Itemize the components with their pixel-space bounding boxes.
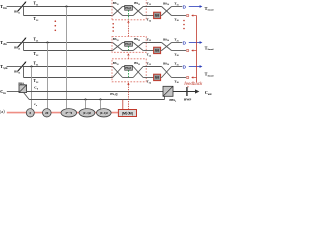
wire after modulator row 2 [161,50,162,52]
wire top row 1 [21,6,113,8]
wire arm bottom row 1 [123,15,134,17]
wire mid bottom row 2 [143,50,154,52]
wire to detector top row 3 [172,66,183,68]
svg-text:D: D [186,48,189,53]
svg-text:Eθ: Eθ [155,49,159,53]
wire C0 [27,91,163,93]
phase shifter PS1 box [125,5,133,10]
svg-text:D: D [186,13,189,18]
coupler BS13 X [133,7,143,16]
switch BS11 slash [18,1,27,11]
wire to detector bottom row 2 [172,50,187,52]
arrow blue row 1 [189,5,203,8]
control line green PS1 [128,10,130,19]
ellipsis dots x55.3 [55,20,57,31]
wire ca bend up [164,96,166,99]
svg-text:2θ: 2θ [45,111,49,115]
dashed box MZI row 3 [112,59,146,82]
wire qubit red line [7,112,119,114]
coupler BS33 X [133,67,143,78]
svg-text:Eθ: Eθ [155,14,159,18]
arrow C out [173,89,199,93]
svg-text:(2ⁿ-1)θ: (2ⁿ-1)θ [83,111,92,115]
wire arm top row 1 [123,6,134,8]
wire vertical drop row 3 [23,67,25,78]
node junction row 3 [30,65,32,67]
wire vertical drop row 1 [23,7,25,16]
wire vertical drop row 2 [23,43,25,51]
node dot ca 1 [85,99,87,101]
coupler BS32 X [113,67,123,78]
node junction row 2 [46,41,48,43]
wire top row 3 [21,66,113,68]
modulator E3 box [154,74,161,80]
phase gate ellipse 1 [26,109,34,117]
wire control vertical x100.5 [100,100,102,110]
feedback dashed to M [127,86,129,110]
feedback stub arrow row 1 [191,14,196,16]
wire control vertical x31.5 [31,67,33,109]
modulator E2 box [154,47,161,53]
svg-text:Eθ: Eθ [155,76,159,80]
wire mid top row 1 [143,6,162,8]
wire bottom row 2 [24,50,113,52]
wire after modulator row 3 [161,77,162,79]
wire input row 3 [7,66,23,68]
feedback dashed gap32 [127,56,129,59]
wire bottom row 1 [24,15,113,17]
wire mid bottom row 1 [143,15,154,17]
wire top row 2 [21,42,113,44]
wire red ca to M [122,100,124,110]
ellipsis dots x113.2 [112,23,114,32]
phase shifter PS2 box [125,41,133,46]
svg-text:PS,θ: PS,θ [125,42,131,46]
measurement box M [118,110,136,117]
svg-text:PS,|ζ|: PS,|ζ| [110,91,118,96]
svg-text:(2ⁿ-1)θ: (2ⁿ-1)θ [100,111,109,115]
wire arm top row 3 [123,66,134,68]
wire to detector bottom row 3 [172,77,187,79]
wire control vertical x66.5 [66,7,68,109]
wire mid top row 3 [143,66,162,68]
wire after modulator row 1 [161,15,162,17]
coupler BS24 X [162,43,172,51]
control line green PS3 [128,70,130,77]
wire bottom row 3 [24,77,113,79]
wire to detector bottom row 1 [172,15,187,17]
svg-text:2ⁿ⁻¹θ: 2ⁿ⁻¹θ [66,111,73,115]
phase shifter PS3 box [125,65,133,70]
wire arm bottom row 2 [123,50,134,52]
coupler BS23 X [133,43,143,51]
modulator E1 box [154,12,161,18]
arrow blue row 2 [189,41,203,44]
svg-text:PS,θ: PS,θ [125,6,131,10]
svg-text:|a⟩: |a⟩ [0,109,5,114]
dashed box MZI row 1 [112,0,146,20]
wire PBS1 to ca diagonal [24,93,30,100]
coupler BS22 X [113,43,123,51]
wire input row 2 [7,42,23,44]
feedback arrow up row3 [127,82,129,85]
switch BS31 slash [18,61,27,71]
wire arm bottom row 3 [123,77,134,79]
wire to detector top row 1 [172,6,183,8]
coupler BS14 X [162,7,172,16]
phase gate ellipse 4 [79,109,95,117]
svg-text:HWP: HWP [184,98,192,102]
beamsplitter PBS2 [163,86,173,96]
beamsplitter PBS1 [19,85,27,93]
feedback dashed gap21 [127,23,129,36]
node junction row 1 [65,5,67,7]
wire c_a [29,99,164,101]
dashed box MZI row 2 [112,36,146,52]
feedback arrow up row1 [127,20,129,22]
svg-text:feedback: feedback [184,81,203,86]
svg-text:|M⟩⟨M|: |M⟩⟨M| [122,111,133,116]
wire control vertical x85.3 [85,100,87,109]
phase gate ellipse 3 [61,109,77,117]
feedback stub arrow row 3 [191,76,196,78]
phase gate ellipse 5 [97,109,112,117]
switch BS21 slash [18,37,27,47]
control line green PS2 [128,46,130,52]
coupler BS34 X [162,67,172,78]
wire C input [7,91,19,93]
wire mid bottom row 3 [143,77,154,79]
feedback line vertical right [196,16,198,83]
wire to detector top row 2 [172,42,183,44]
svg-text:D: D [186,75,189,80]
feedback arrow up row2 [127,53,129,55]
node dot ca 2 [100,99,102,101]
waveplate HWP [186,87,188,96]
wire control vertical x47.5 [47,43,49,109]
wire arm top row 2 [123,42,134,44]
arrow blue row 3 [189,65,203,68]
feedback stub arrow row 2 [191,49,196,51]
coupler BS12 X [113,7,123,16]
waveplate HWP red tick [187,86,190,87]
wire input row 1 [7,6,23,8]
wire mid top row 2 [143,42,162,44]
phase gate ellipse 2 [43,109,52,117]
svg-text:PS,θ: PS,θ [125,66,131,70]
ellipsis dots x184.0 [183,20,185,30]
